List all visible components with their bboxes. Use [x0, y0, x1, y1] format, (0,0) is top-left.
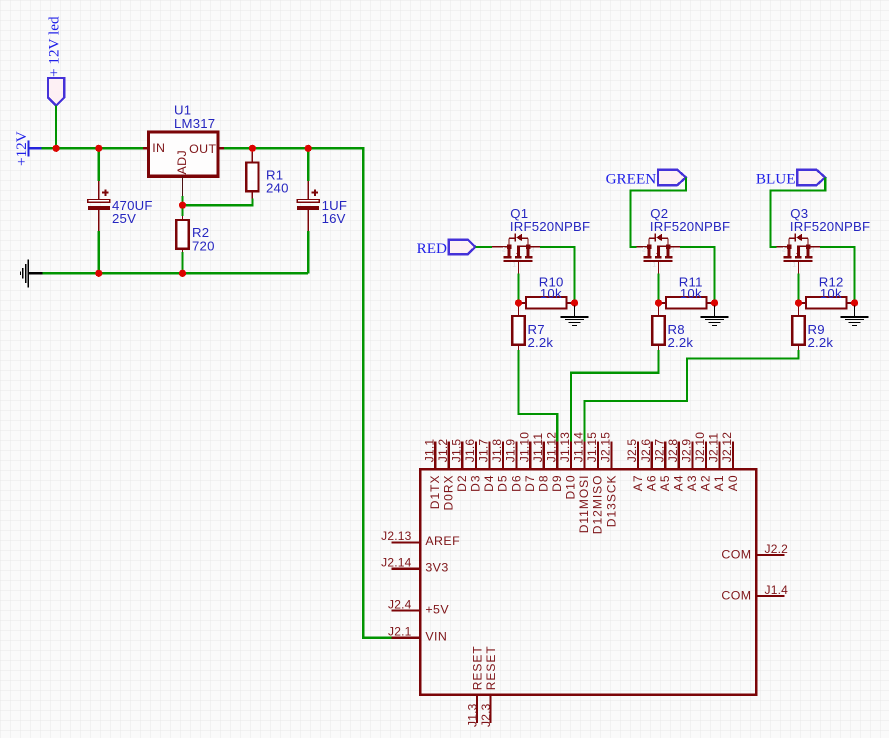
pin J1.14 D11MOSI — [572, 432, 592, 534]
svg-text:GREEN: GREEN — [606, 170, 657, 187]
pin J1.8 D5 — [490, 439, 510, 492]
pin J2.10 A2 — [693, 432, 713, 491]
pin J1.11 D8 — [531, 433, 551, 492]
ref label Q3 IRF520NPBF — [790, 206, 870, 234]
pin J2.2 COM — [721, 542, 788, 562]
svg-text:AREF: AREF — [425, 534, 460, 548]
svg-text:J1.9: J1.9 — [504, 439, 518, 463]
value label R11 10k — [679, 275, 703, 301]
pin J2.11 A1 — [707, 433, 727, 492]
svg-text:IN: IN — [152, 141, 165, 155]
svg-text:J1.8: J1.8 — [490, 439, 504, 463]
svg-text:25V: 25V — [112, 211, 136, 226]
svg-text:D8: D8 — [537, 475, 551, 492]
svg-text:2.2k: 2.2k — [668, 335, 694, 350]
transistor Q2 IRF520NPBF — [642, 234, 675, 274]
ref label U1 LM317 — [174, 103, 215, 131]
junction ground node — [851, 299, 858, 306]
power flag +12V led — [46, 16, 65, 106]
capacitor C2 1UF — [297, 148, 319, 273]
svg-text:RESET: RESET — [484, 645, 498, 690]
junction — [53, 145, 60, 152]
svg-text:A2: A2 — [699, 475, 713, 492]
svg-text:J2.7: J2.7 — [652, 439, 666, 463]
svg-text:OUT: OUT — [189, 142, 216, 156]
value label 470UF 25V — [112, 198, 153, 226]
wire ADJ node — [181, 196, 183, 205]
pin J2.7 A5 — [652, 439, 672, 492]
pin J2.12 A0 — [720, 432, 740, 491]
capacitor C1 470UF — [88, 148, 110, 273]
pin J1.10 D7 — [517, 432, 537, 492]
pin J1.2 D0RX — [436, 439, 456, 511]
transistor Q3 IRF520NPBF — [782, 234, 815, 274]
pin J2.4 +5V — [388, 597, 449, 616]
svg-text:D7: D7 — [523, 475, 537, 492]
svg-text:J2.12: J2.12 — [720, 432, 734, 462]
svg-text:J1.1: J1.1 — [422, 439, 436, 463]
value label R7 2.2k — [528, 322, 554, 350]
svg-text:10k: 10k — [540, 286, 562, 301]
resistor R9 2.2k — [792, 307, 804, 351]
junction ground node — [711, 299, 718, 306]
svg-text:J1.2: J1.2 — [436, 439, 450, 463]
power symbol +12V — [13, 131, 42, 166]
pin J2.8 A4 — [666, 439, 686, 492]
pin J2.3 RESET — [479, 645, 498, 727]
wire R9 to D11 pin — [585, 350, 799, 443]
wire GREEN to transistor — [630, 177, 686, 247]
wire +12Vled flag to rail — [55, 106, 57, 149]
svg-text:2.2k: 2.2k — [808, 335, 834, 350]
svg-text:J2.10: J2.10 — [693, 432, 707, 462]
transistor Q1 IRF520NPBF — [502, 234, 535, 274]
regulator U1 LM317 — [143, 132, 224, 196]
svg-text:J1.4: J1.4 — [765, 583, 789, 597]
pin J1.5 D2 — [449, 439, 469, 492]
junction — [179, 270, 186, 277]
svg-text:RED: RED — [417, 240, 447, 257]
svg-text:D10: D10 — [564, 475, 578, 500]
svg-text:+ 12V led: + 12V led — [46, 16, 63, 77]
wire source to ground node — [530, 246, 540, 248]
resistor R7 2.2k — [512, 307, 524, 351]
pin J1.9 D6 — [504, 439, 524, 492]
junction gate node — [795, 299, 802, 306]
svg-text:16V: 16V — [322, 211, 346, 226]
svg-text:D0RX: D0RX — [442, 475, 456, 511]
junction — [249, 145, 256, 152]
svg-text:2.2k: 2.2k — [528, 335, 554, 350]
svg-text:A1: A1 — [712, 475, 726, 492]
svg-text:J2.5: J2.5 — [625, 439, 639, 463]
junction — [95, 145, 102, 152]
pin J1.6 D3 — [463, 439, 483, 492]
svg-text:D11MOSI: D11MOSI — [577, 475, 591, 534]
svg-text:A7: A7 — [631, 475, 645, 492]
svg-text:IRF520NPBF: IRF520NPBF — [790, 219, 870, 234]
pin J1.13 D10 — [558, 432, 578, 500]
pin J2.13 AREF — [381, 529, 460, 548]
svg-text:J1.12: J1.12 — [544, 432, 558, 462]
wire source to ground node — [810, 246, 820, 248]
svg-text:D5: D5 — [496, 475, 510, 492]
wire RED to gate-drain — [475, 246, 492, 248]
ground — [701, 306, 729, 327]
net flag GREEN — [606, 170, 686, 188]
svg-text:J1.11: J1.11 — [531, 433, 545, 463]
value label R10 10k — [539, 275, 564, 301]
svg-text:J1.6: J1.6 — [463, 439, 477, 463]
junction — [179, 202, 186, 209]
wire source to ground node — [670, 246, 680, 248]
value label R2 720 — [192, 225, 215, 253]
pin J2.1 VIN — [388, 625, 447, 644]
svg-text:J1.10: J1.10 — [517, 432, 531, 462]
wire +12V rail — [41, 147, 143, 149]
pin J1.15 D12MISO — [585, 432, 605, 534]
junction ground node — [571, 299, 578, 306]
svg-text:J2.3: J2.3 — [479, 703, 493, 727]
svg-text:IRF520NPBF: IRF520NPBF — [650, 219, 730, 234]
resistor R11 10k — [659, 297, 715, 309]
wire OUT rail — [224, 147, 363, 149]
wire ground rail — [43, 272, 309, 274]
svg-text:J2.4: J2.4 — [388, 597, 412, 611]
svg-text:D9: D9 — [550, 475, 564, 492]
wire gate down — [657, 274, 659, 300]
svg-text:COM: COM — [721, 547, 751, 561]
wire to VIN pin — [362, 637, 391, 639]
pin J2.9 A3 — [680, 439, 700, 492]
value label 1UF 16V — [322, 198, 348, 226]
svg-text:IRF520NPBF: IRF520NPBF — [510, 219, 590, 234]
svg-text:J1.15: J1.15 — [585, 432, 599, 462]
svg-text:J2.15: J2.15 — [599, 432, 613, 462]
module A1 arduino body — [420, 469, 756, 695]
pin J2.5 A7 — [625, 439, 645, 492]
svg-text:D1TX: D1TX — [428, 475, 442, 510]
svg-text:J2.2: J2.2 — [765, 542, 789, 556]
pin J1.7 D4 — [477, 439, 497, 492]
svg-text:J1.14: J1.14 — [572, 432, 586, 462]
svg-text:COM: COM — [721, 588, 751, 602]
svg-text:VIN: VIN — [425, 630, 447, 644]
resistor R10 10k — [519, 297, 575, 309]
pin J2.15 D13SCK — [599, 432, 619, 527]
svg-text:J2.9: J2.9 — [680, 439, 694, 463]
svg-text:J2.11: J2.11 — [707, 433, 721, 463]
svg-text:J1.13: J1.13 — [558, 432, 572, 462]
wire gate down — [797, 274, 799, 300]
resistor R8 2.2k — [652, 307, 664, 351]
svg-text:RESET: RESET — [470, 645, 484, 690]
net flag RED — [417, 240, 476, 257]
wire R8 to D10 pin — [571, 350, 659, 443]
wire ADJ to R2 top — [181, 205, 183, 216]
svg-text:J2.13: J2.13 — [381, 529, 411, 543]
pin J1.4 COM — [721, 583, 788, 603]
net flag BLUE — [756, 170, 825, 188]
svg-text:D12MISO: D12MISO — [591, 475, 605, 535]
svg-text:720: 720 — [192, 238, 215, 253]
wire rail down to VIN — [362, 147, 364, 638]
svg-text:J2.8: J2.8 — [666, 439, 680, 463]
svg-text:D2: D2 — [455, 475, 469, 492]
svg-text:+12V: +12V — [13, 131, 30, 166]
svg-text:J1.3: J1.3 — [465, 703, 479, 727]
svg-text:J2.1: J2.1 — [388, 625, 412, 639]
resistor R1 — [246, 149, 258, 198]
svg-text:A0: A0 — [726, 475, 740, 492]
svg-text:D13SCK: D13SCK — [604, 475, 618, 528]
pin J1.3 RESET — [465, 645, 484, 727]
svg-text:10k: 10k — [820, 286, 842, 301]
ref label Q1 IRF520NPBF — [510, 206, 590, 234]
svg-text:10k: 10k — [680, 286, 702, 301]
svg-text:J1.5: J1.5 — [449, 439, 463, 463]
junction — [305, 145, 312, 152]
svg-text:BLUE: BLUE — [756, 170, 796, 187]
pin J1.12 D9 — [544, 432, 564, 492]
pin J1.1 D1TX — [422, 439, 442, 510]
value label R9 2.2k — [808, 322, 834, 350]
svg-text:J1.7: J1.7 — [477, 439, 491, 463]
wire ADJ to R1 bottom — [183, 198, 253, 205]
svg-text:LM317: LM317 — [174, 116, 215, 131]
junction gate node — [655, 299, 662, 306]
resistor R2 — [176, 216, 188, 273]
svg-text:D4: D4 — [482, 475, 496, 492]
wire gate down — [517, 274, 519, 300]
junction — [95, 270, 102, 277]
junction gate node — [515, 299, 522, 306]
wire R7 to D9 pin — [519, 350, 558, 443]
value label R8 2.2k — [668, 322, 694, 350]
svg-text:3V3: 3V3 — [425, 561, 448, 575]
ground — [841, 306, 869, 327]
svg-text:D3: D3 — [469, 475, 483, 492]
ground (left, earth) — [20, 259, 43, 287]
ground — [561, 306, 589, 327]
ref label Q2 IRF520NPBF — [650, 206, 730, 234]
svg-text:A6: A6 — [644, 475, 658, 492]
svg-text:A5: A5 — [658, 475, 672, 492]
svg-text:J2.14: J2.14 — [381, 556, 411, 570]
wire BLUE to transistor — [770, 177, 825, 247]
svg-text:J2.6: J2.6 — [639, 439, 653, 463]
value label R12 10k — [819, 275, 844, 301]
svg-text:+5V: +5V — [425, 602, 449, 616]
svg-text:D6: D6 — [509, 475, 523, 492]
value label R1 240 — [266, 167, 289, 195]
pin J2.14 3V3 — [381, 556, 449, 575]
svg-text:A3: A3 — [685, 475, 699, 492]
pin J2.6 A6 — [639, 439, 659, 492]
svg-text:240: 240 — [266, 181, 289, 196]
svg-text:ADJ: ADJ — [175, 150, 189, 175]
resistor R12 10k — [799, 297, 855, 309]
svg-text:A4: A4 — [672, 475, 686, 492]
